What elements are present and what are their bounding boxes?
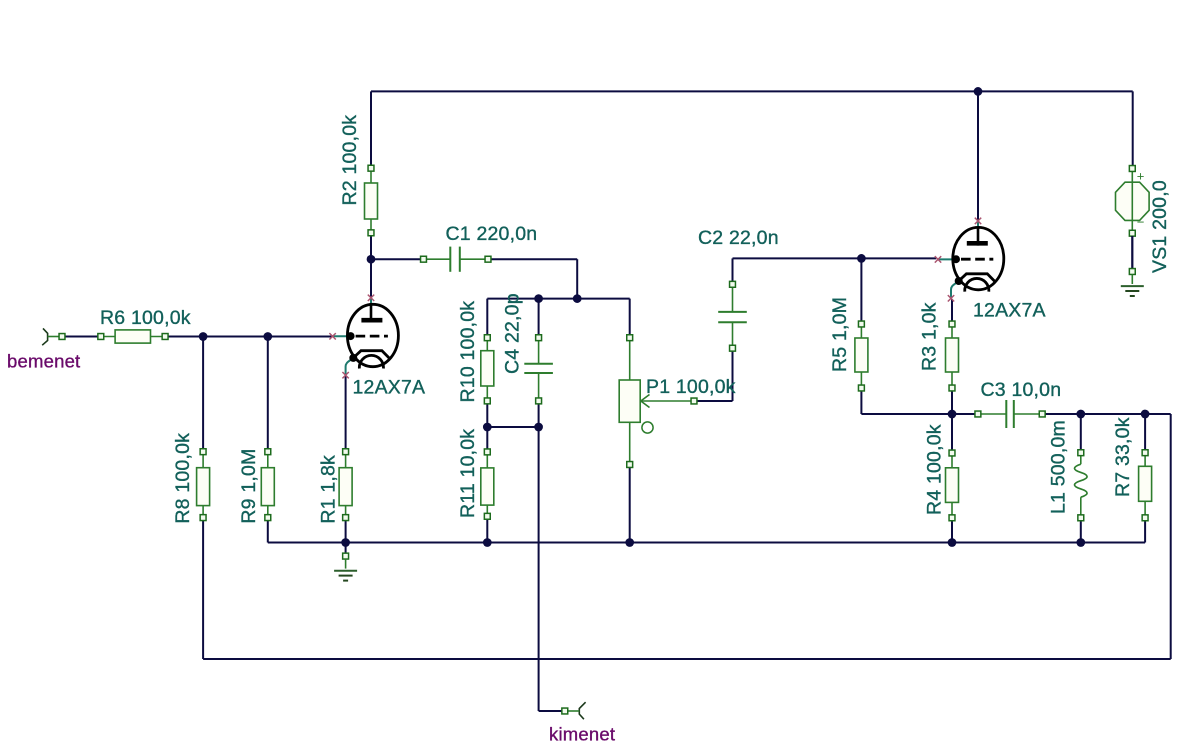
svg-text:P1 100,0k: P1 100,0k <box>646 376 736 398</box>
svg-text:12AX7A: 12AX7A <box>353 377 426 399</box>
svg-text:12AX7A: 12AX7A <box>973 300 1046 322</box>
svg-text:C2 22,0n: C2 22,0n <box>698 227 779 249</box>
svg-text:R3 1,0k: R3 1,0k <box>919 302 941 371</box>
svg-text:VS1 200,0: VS1 200,0 <box>1149 180 1171 273</box>
svg-text:L1 500,0m: L1 500,0m <box>1048 420 1070 514</box>
svg-text:R4 100,0k: R4 100,0k <box>924 424 946 515</box>
svg-text:C3 10,0n: C3 10,0n <box>981 379 1062 401</box>
svg-text:R2 100,0k: R2 100,0k <box>339 115 361 206</box>
svg-text:kimenet: kimenet <box>549 724 615 745</box>
svg-text:R1 1,8k: R1 1,8k <box>318 455 340 524</box>
svg-text:R8 100,0k: R8 100,0k <box>172 433 194 524</box>
svg-text:R5 1,0M: R5 1,0M <box>829 297 851 372</box>
svg-text:R11 10,0k: R11 10,0k <box>457 429 479 518</box>
svg-text:R6 100,0k: R6 100,0k <box>100 307 191 329</box>
svg-text:+: + <box>1137 169 1145 184</box>
svg-text:R7 33,0k: R7 33,0k <box>1112 417 1134 497</box>
svg-text:C4 22,0p: C4 22,0p <box>502 293 524 374</box>
svg-text:R9 1,0M: R9 1,0M <box>238 448 260 523</box>
svg-text:bemenet: bemenet <box>7 351 80 372</box>
svg-text:C1 220,0n: C1 220,0n <box>446 223 538 245</box>
svg-text:−: − <box>1137 215 1145 230</box>
svg-text:R10 100,0k: R10 100,0k <box>457 301 479 403</box>
